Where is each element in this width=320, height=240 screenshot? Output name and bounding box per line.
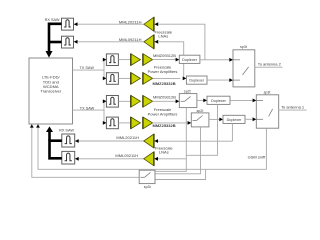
arrow into FL4 — [103, 77, 107, 81]
arrow into U3 input — [154, 40, 158, 44]
svg-text:MML09211H: MML09211H — [115, 153, 138, 158]
arrow into FL6 — [103, 121, 107, 125]
duplexer D1 — [179, 55, 200, 63]
wire to antenna 2 — [255, 66, 283, 68]
arrow into FL3 — [103, 58, 107, 62]
filter FL8 RX SAW bottom — [62, 151, 75, 164]
power amp Q4b row4 stage2 — [143, 117, 153, 129]
switch S2 TDD row3 — [179, 94, 197, 108]
svg-text:Duplexer: Duplexer — [189, 79, 205, 83]
arrow W1 into transceiver bottom — [30, 124, 34, 127]
arrow into FL7 — [75, 139, 79, 143]
arrow into FL8 — [75, 157, 79, 161]
switch S5 GSM sniff — [139, 170, 155, 183]
label Freescale LNAs (top) — [155, 29, 173, 38]
svg-text:sp3t: sp3t — [144, 185, 151, 189]
op-amp U3 LNA MML09211H — [144, 35, 154, 49]
wire S3 to duplexer D4 — [209, 118, 220, 120]
op-amp U4 LNA row5 — [144, 134, 154, 148]
power amp Q4a row4 stage1 — [131, 117, 141, 129]
svg-text:Power Amplifiers: Power Amplifiers — [148, 112, 178, 117]
arrow into U2 input — [154, 22, 158, 26]
wire W2 branch to sniff switch — [155, 169, 205, 179]
wire FL8 to LNA row6 — [79, 158, 144, 160]
svg-text:sp2t: sp2t — [197, 109, 204, 113]
wire D4 RX branch down to LNA row5 — [231, 124, 233, 142]
arrow into FL1 — [74, 22, 78, 26]
switch S1 antenna 2 — [233, 50, 255, 87]
wire thick RX feed to transceiver top — [49, 24, 62, 52]
svg-text:RX SAW: RX SAW — [59, 129, 74, 133]
power amp Q3b row3 stage2 — [143, 95, 153, 107]
wire S2 RX branch down to sniff switch — [155, 108, 186, 172]
wire U4 input from D4 — [158, 140, 232, 142]
arrow into U4 input — [154, 139, 158, 143]
wire FL7 to LNA row5 — [79, 140, 144, 142]
svg-text:MMZ25332B: MMZ25332B — [153, 81, 176, 86]
op-amp U5 LNA row6 — [144, 152, 154, 166]
filter FL7 RX SAW bottom — [62, 134, 75, 147]
arrow into S1 port1 — [229, 58, 233, 62]
switch S3 TDD row4 — [191, 113, 209, 127]
power amp Q1a row1 stage1 — [131, 54, 141, 66]
power amp Q3a row3 stage1 — [131, 95, 141, 107]
svg-text:sp3t: sp3t — [240, 45, 247, 49]
wire U3 input from duplexer D2 net — [158, 42, 184, 79]
wire PA row2 to duplexer D2 — [153, 77, 181, 79]
arrow into S4 port1 — [253, 99, 257, 103]
label Freescale Power Amplifiers (top) — [148, 65, 178, 74]
power amp Q2a row2 stage1 — [131, 73, 141, 85]
filter FL5 TX SAW bottom — [106, 96, 118, 108]
duplexer D4 — [223, 115, 245, 123]
filter FL1 RX SAW top — [62, 18, 74, 30]
label Freescale LNAs (bottom) — [155, 145, 173, 154]
svg-text:sp2t: sp2t — [184, 90, 191, 94]
wire D4 to antenna switch S4 — [245, 118, 253, 120]
svg-text:RX SAW: RX SAW — [45, 18, 60, 22]
arrow into S2 — [176, 99, 180, 103]
op-amp U2 LNA MML20211H — [144, 17, 154, 31]
wire S3 RX branch down to sniff switch — [155, 127, 201, 174]
arrow into U5 input — [154, 157, 158, 161]
arrow into FL5 — [103, 99, 107, 103]
svg-text:To antenna 1: To antenna 1 — [281, 104, 305, 109]
duplexer D3 — [207, 96, 230, 104]
wire to antenna 1 — [279, 109, 307, 111]
wire D2 to antenna switch S1 — [207, 79, 229, 81]
wire D3 RX branch down — [186, 104, 217, 155]
wire FL1 to LNA U2 — [77, 23, 144, 25]
switch S4 antenna 1 — [256, 95, 278, 128]
wire PA row3 to switch S2 — [153, 100, 176, 102]
arrow into S1 port2 — [229, 78, 233, 82]
svg-text:GSM sniff: GSM sniff — [248, 154, 266, 159]
filter FL3 TX SAW top — [106, 54, 118, 66]
filter FL6 TX SAW bottom — [106, 117, 118, 129]
arrow into S4 port2 — [253, 117, 257, 121]
power amp Q2b row2 stage2 — [143, 73, 153, 85]
wire D1 to antenna switch S1 — [200, 59, 229, 61]
arrow into FL2 — [74, 40, 78, 44]
duplexer D2 — [186, 76, 207, 84]
arrow into D3 — [203, 99, 207, 103]
svg-text:Power Amplifiers: Power Amplifiers — [148, 69, 178, 74]
svg-text:TX SAW: TX SAW — [79, 66, 94, 70]
power amp Q1b row1 stage2 — [143, 54, 153, 66]
wire transceiver control (W2) to antenna1 switch GSM port — [38, 127, 266, 169]
svg-text:Duplexer: Duplexer — [211, 99, 227, 103]
arrow W2 into transceiver bottom — [36, 124, 40, 127]
svg-text:LNAs: LNAs — [159, 150, 169, 155]
arrow into transceiver bottom (thick) — [46, 126, 53, 132]
wire FL6 to PA row4 — [118, 122, 130, 124]
wire thick RX feed to transceiver bottom — [50, 141, 62, 159]
svg-text:LNAs: LNAs — [158, 34, 168, 39]
svg-text:Duplexer: Duplexer — [227, 118, 243, 122]
arrow into D2 — [183, 77, 187, 81]
arrow into D1 — [176, 58, 180, 62]
wire FL2 to LNA U3 — [77, 41, 144, 43]
svg-text:MMZ09312B: MMZ09312B — [153, 95, 176, 100]
arrow into transceiver top — [46, 51, 53, 58]
svg-text:MML20211H: MML20211H — [116, 135, 139, 140]
transceiver U1 LTE-FDD/TDD and WCDMA Transceiver — [29, 58, 73, 124]
wire S2 to duplexer D3 — [197, 99, 204, 101]
arrow into D4 — [219, 118, 223, 122]
arrow into S3 — [188, 121, 192, 125]
wire FL4 to PA row2 — [118, 77, 130, 79]
svg-text:Transceiver: Transceiver — [40, 89, 61, 94]
wire TX feed top from transceiver — [73, 60, 105, 79]
svg-text:MML20211H: MML20211H — [119, 19, 142, 24]
filter FL4 TX SAW top — [106, 73, 118, 85]
svg-text:Duplexer: Duplexer — [182, 58, 198, 62]
wire D3 to antenna switch S4 — [230, 99, 253, 101]
svg-text:MMZ25332B: MMZ25332B — [153, 123, 176, 128]
svg-text:MML09211H: MML09211H — [119, 37, 142, 42]
wire TX feed bottom from transceiver — [73, 101, 105, 123]
wire U5 input from S2 branch — [158, 158, 186, 160]
label Freescale Power Amplifiers (bottom) — [148, 107, 178, 116]
wire FL5 to PA row3 — [118, 100, 130, 102]
wire transceiver GSM RX (W1) to sniff switch — [32, 127, 139, 177]
wire PA row1 to duplexer D1 — [153, 59, 176, 61]
svg-text:sp3t: sp3t — [264, 90, 271, 94]
svg-text:MMZ09312B: MMZ09312B — [153, 53, 176, 58]
wire U2 input from duplexer D1 net — [158, 24, 205, 60]
wire FL3 to PA row1 — [118, 59, 130, 61]
wire PA row4 to switch S3 — [153, 122, 188, 124]
filter FL2 RX SAW top — [62, 36, 74, 48]
svg-text:To antenna 2: To antenna 2 — [258, 62, 282, 67]
